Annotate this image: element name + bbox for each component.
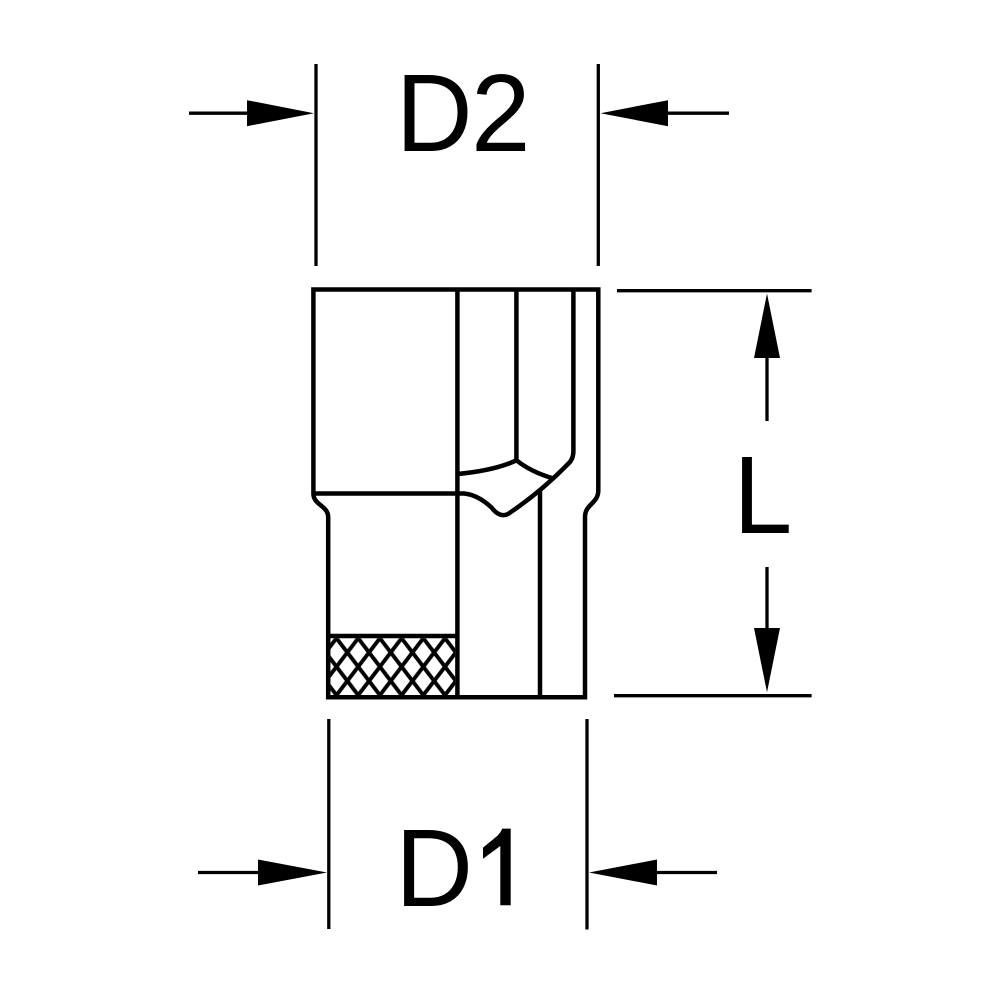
socket body outer silhouette — [313, 290, 598, 698]
D1 arrow right — [589, 860, 717, 886]
L extension line bottom — [614, 694, 812, 697]
D2 extension line right — [597, 64, 600, 266]
knurl band top edge — [328, 634, 457, 639]
svg-text:L: L — [733, 434, 792, 557]
hex corner line 2 — [514, 290, 519, 461]
knurl hatch fill — [330, 638, 455, 695]
neck vertical line below chamfer junction — [538, 490, 543, 697]
svg-text:D: D — [395, 807, 473, 930]
D1 arrow left — [198, 860, 327, 886]
svg-text:D: D — [396, 52, 473, 175]
svg-text:2: 2 — [471, 52, 530, 175]
L extension line top — [617, 289, 812, 292]
shoulder line, lower chamfer scallop, diagonal and hex corner 3 — [313, 290, 573, 516]
D1 extension line left — [327, 719, 330, 929]
D2 arrow left — [189, 100, 314, 126]
face curve between corner 1 and corner 2 — [457, 460, 516, 474]
face curve between corner 2 and corner 3 — [516, 460, 553, 478]
L arrow up — [754, 294, 780, 422]
D2 arrow right — [601, 100, 730, 126]
L arrow down — [754, 567, 780, 692]
hex corner line 1 — [455, 290, 460, 698]
digit 1 of D1 drawn as path (no foot serif) — [483, 829, 511, 906]
D1 extension line right — [585, 719, 588, 930]
D2 extension line left — [314, 64, 317, 266]
